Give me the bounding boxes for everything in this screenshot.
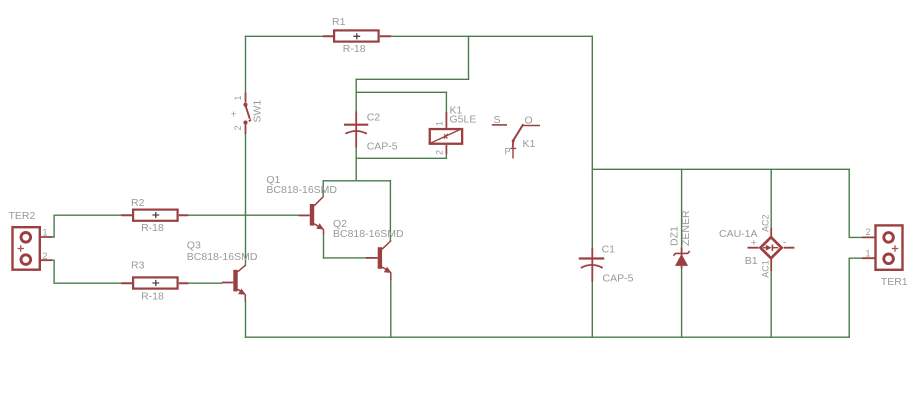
svg-text:AC1: AC1 xyxy=(761,260,771,278)
K1 contact pivot dot xyxy=(512,139,515,142)
Q2 emitter arrow xyxy=(384,267,392,273)
SW1 contact dot 1 xyxy=(243,103,247,107)
K1 coil diagonal xyxy=(431,129,462,143)
wire DZ1 bottom xyxy=(681,269,683,338)
C1 curved plate xyxy=(581,265,603,268)
wire B1 bottom xyxy=(770,271,772,337)
K1 coil box xyxy=(430,129,462,144)
C2 curved plate xyxy=(345,131,367,134)
terminal TER1 xyxy=(862,225,908,287)
K1 contact pivot tick xyxy=(510,147,516,149)
TER2 terminal ring 1 xyxy=(21,233,31,243)
relay coil K1 xyxy=(430,105,477,155)
wire B1 top xyxy=(770,169,772,228)
svg-text:TER2: TER2 xyxy=(9,210,36,222)
C2 positive plate xyxy=(344,124,368,126)
svg-text:K1: K1 xyxy=(523,138,536,150)
wire Q1 emitter to Q2 base xyxy=(324,257,367,259)
R2 pin stubs xyxy=(121,214,188,216)
svg-text:BC818-16SMD: BC818-16SMD xyxy=(187,251,258,263)
C2 lead xyxy=(355,112,357,148)
Q1 collector xyxy=(314,197,323,206)
wire right rail down to C1 xyxy=(591,36,593,247)
terminal TER2 xyxy=(9,210,53,270)
svg-text:2: 2 xyxy=(233,125,243,130)
SW1 lever xyxy=(245,105,249,119)
svg-text:1: 1 xyxy=(435,121,445,126)
wire C1 bottom to bottom rail xyxy=(591,282,593,337)
wire bottom rail xyxy=(246,336,850,338)
svg-text:2: 2 xyxy=(866,227,871,237)
SW1 contact dot 2 xyxy=(243,120,247,124)
wire Q2 collector xyxy=(389,181,391,241)
svg-text:C2: C2 xyxy=(367,111,381,123)
bridge rectifier B1 xyxy=(719,214,794,277)
TER1 body xyxy=(876,225,903,269)
wire Q2 emitter to bottom rail xyxy=(390,280,392,337)
transistor Q1 xyxy=(266,174,337,234)
svg-text:1: 1 xyxy=(866,249,871,259)
wire Q3 emitter to bottom rail xyxy=(245,301,247,337)
Q2 collector xyxy=(382,241,391,250)
svg-text:Q3: Q3 xyxy=(187,239,201,251)
B1 plus minus stubs xyxy=(748,247,795,249)
K1 coil arrow mark xyxy=(444,134,448,139)
K1 contact pin P xyxy=(512,147,514,159)
Q1 emitter xyxy=(314,224,323,235)
svg-text:CAP-5: CAP-5 xyxy=(367,141,398,153)
SW1 lever tip tick xyxy=(249,120,251,122)
R2 body with plus mark xyxy=(133,210,178,221)
wire R3 to Q3 base xyxy=(188,282,221,284)
svg-text:B1: B1 xyxy=(745,255,758,267)
wire TER2 pin1 to R2 xyxy=(52,215,121,237)
svg-text:C1: C1 xyxy=(602,243,616,255)
svg-text:SW1: SW1 xyxy=(252,100,264,123)
resistor R2 xyxy=(121,197,188,234)
Q3 base bar xyxy=(233,270,237,292)
svg-text:+: + xyxy=(751,237,757,249)
svg-text:TER1: TER1 xyxy=(881,276,908,288)
wire R2 to Q1 base xyxy=(188,214,298,216)
C1 positive plate xyxy=(579,257,604,259)
svg-text:DZ1: DZ1 xyxy=(669,226,681,246)
Q2 base pin xyxy=(366,257,378,259)
capacitor C2 xyxy=(344,111,398,152)
svg-text:S: S xyxy=(494,114,501,126)
wire Q1 emitter down xyxy=(323,234,325,258)
wire tap across left xyxy=(356,78,468,80)
C1 lead xyxy=(591,248,593,282)
svg-text:G5LE: G5LE xyxy=(450,114,477,126)
svg-text:ZENER: ZENER xyxy=(680,210,692,246)
svg-text:BC818-16SMD: BC818-16SMD xyxy=(266,184,337,196)
TER1 plus mark xyxy=(892,245,899,251)
K1 contact pin O xyxy=(522,125,540,127)
Q3 collector xyxy=(238,265,246,272)
wire tap step down xyxy=(355,79,357,92)
SW1 pin 2 xyxy=(245,124,247,134)
Q3 emitter arrow xyxy=(238,289,246,295)
wire C2 top xyxy=(355,92,357,111)
wire tap to K1 coil pin1 xyxy=(356,91,446,93)
svg-text:R2: R2 xyxy=(131,197,145,209)
DZ1 triangle xyxy=(675,254,688,266)
TER1 terminal ring 2 xyxy=(884,233,894,243)
TER1 pin stubs xyxy=(862,237,875,258)
wire TER1 pin1 branch xyxy=(849,258,862,337)
wire C2 branch to collector node xyxy=(355,158,357,181)
svg-text:R-18: R-18 xyxy=(141,291,164,303)
svg-text:AC2: AC2 xyxy=(761,214,771,232)
wire top tap down xyxy=(468,36,470,79)
Q2 base bar xyxy=(378,247,382,269)
wire TER1 pin2 branch xyxy=(849,169,862,237)
svg-text:R-18: R-18 xyxy=(141,222,164,234)
transistor Q3 xyxy=(187,239,258,301)
DZ1 lead xyxy=(681,248,683,269)
svg-text:2: 2 xyxy=(435,150,445,155)
K1 coil pin 2 xyxy=(445,145,447,154)
TER2 body xyxy=(13,227,40,270)
svg-text:R-18: R-18 xyxy=(343,43,366,55)
K1 contact pin S xyxy=(492,124,507,126)
svg-text:BC818-16SMD: BC818-16SMD xyxy=(333,228,404,240)
resistor R3 xyxy=(121,260,188,303)
wire DZ1 top xyxy=(681,169,683,247)
B1 diamond body xyxy=(760,237,781,258)
svg-text:R1: R1 xyxy=(332,16,346,28)
svg-text:-: - xyxy=(783,237,787,249)
R3 pin stubs xyxy=(121,282,188,284)
svg-text:1: 1 xyxy=(233,95,243,100)
zener diode DZ1 xyxy=(669,210,692,269)
K1 contact pivot xyxy=(512,141,514,147)
R3 body with plus mark xyxy=(133,277,178,288)
TER2 terminal ring 2 xyxy=(21,255,31,265)
B1 AC pins xyxy=(770,228,772,271)
Q1 base pin xyxy=(298,214,310,216)
wire SW1 to Q3 collector xyxy=(245,134,247,265)
wire Q1 collector xyxy=(322,181,324,197)
Q3 emitter xyxy=(238,289,246,302)
svg-text:CAP-5: CAP-5 xyxy=(603,273,634,285)
TER2 plus mark xyxy=(18,245,25,251)
Q1 base bar xyxy=(310,204,314,226)
Q1 emitter arrow xyxy=(316,223,324,229)
K1 contact lever xyxy=(513,124,523,141)
Q3 base pin xyxy=(222,282,234,284)
svg-text:+: + xyxy=(231,109,237,121)
switch SW1 xyxy=(231,93,264,134)
K1 coil pin 1 xyxy=(445,112,447,128)
R1 body with plus mark xyxy=(334,30,379,41)
wire collector node top xyxy=(323,180,390,182)
wire C2 bottom xyxy=(355,148,357,159)
Q2 emitter xyxy=(382,267,391,281)
capacitor C1 xyxy=(579,243,634,284)
wire C2 to K1 pin2 xyxy=(356,154,446,159)
relay contact K1 xyxy=(492,114,540,159)
DZ1 cathode bar xyxy=(673,251,689,256)
B1 inner diode bar xyxy=(771,245,773,251)
resistor R1 xyxy=(323,16,391,55)
svg-text:R3: R3 xyxy=(131,260,145,272)
B1 inner diode triangle xyxy=(766,245,772,251)
wire K1 pin1 drop xyxy=(445,92,447,112)
TER2 pin stubs xyxy=(41,237,52,260)
wire top left segment xyxy=(246,35,323,37)
transistor Q2 xyxy=(333,218,404,281)
wire TER2 pin2 to R3 xyxy=(52,260,121,283)
B1 inner diode leads xyxy=(763,247,778,249)
R1 pin stubs xyxy=(323,35,391,37)
SW1 pin 1 xyxy=(245,93,247,103)
TER1 terminal ring 1 xyxy=(884,254,894,264)
svg-text:1: 1 xyxy=(43,228,48,238)
wire top right segment xyxy=(391,35,592,37)
svg-text:O: O xyxy=(525,115,533,127)
svg-text:P: P xyxy=(505,147,511,157)
wire left rail top to SW1 xyxy=(245,36,247,92)
svg-text:2: 2 xyxy=(43,251,48,261)
wire right box top xyxy=(592,168,849,170)
